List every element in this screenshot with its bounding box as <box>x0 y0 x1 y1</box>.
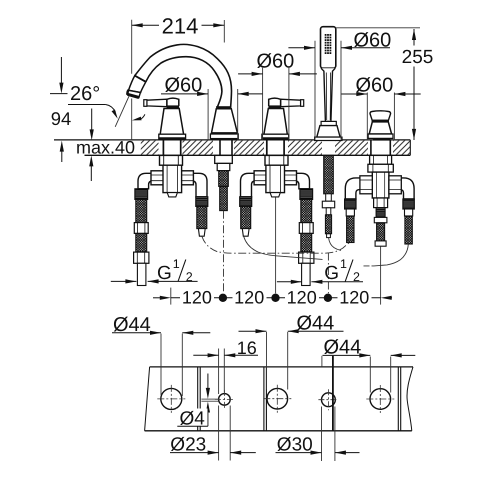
dimension 26 degrees <box>68 83 145 122</box>
hand shower <box>315 27 342 141</box>
svg-text:120: 120 <box>339 288 369 308</box>
svg-text:16: 16 <box>237 338 257 358</box>
valve unit 2 (hot handle + valve + hoses, mirrored) <box>240 98 314 285</box>
svg-text:Ø60: Ø60 <box>354 29 392 51</box>
hole 4 (D30) <box>318 389 338 410</box>
hand shower shank below deck <box>322 155 334 237</box>
hole 5 (D44) <box>366 385 394 413</box>
svg-text:120: 120 <box>182 288 212 308</box>
dimension D4 <box>177 374 219 430</box>
svg-text:G: G <box>324 263 339 284</box>
spout shank below deck <box>215 155 233 210</box>
svg-text:Ø44: Ø44 <box>113 314 151 336</box>
valve unit 1 (cold handle + valve + hoses) <box>134 98 208 285</box>
dimension 255 <box>336 28 434 140</box>
svg-text:94: 94 <box>51 108 71 129</box>
joint line at hole 4 <box>322 356 333 431</box>
label G 1/2 right <box>277 257 363 284</box>
dimension 16 <box>193 338 258 394</box>
dimension D60 diverter <box>341 75 420 140</box>
svg-text:Ø23: Ø23 <box>170 434 206 455</box>
dimension 214 <box>132 14 225 140</box>
bottom rim section <box>145 367 413 431</box>
svg-text:255: 255 <box>402 47 434 68</box>
dimension row 120 <box>153 288 392 308</box>
hole 3 (D44) <box>263 385 291 413</box>
dimension D60 hot handle <box>238 50 317 140</box>
dimension D60 hand shower <box>288 29 391 140</box>
svg-text:214: 214 <box>162 14 199 39</box>
dimension D30 <box>276 407 360 462</box>
svg-text:1: 1 <box>340 257 347 271</box>
label G 1/2 left <box>111 257 198 284</box>
spout base <box>216 106 231 109</box>
svg-text:Ø60: Ø60 <box>165 75 203 97</box>
hole 1 (D44) <box>157 385 185 413</box>
svg-text:120: 120 <box>287 288 317 308</box>
svg-text:G: G <box>157 263 172 284</box>
spout <box>127 44 238 155</box>
dimension D60 spout <box>161 75 262 140</box>
dimension D44 hole3 <box>239 313 344 390</box>
svg-text:Ø30: Ø30 <box>277 434 313 455</box>
diverter knob <box>368 111 393 141</box>
dimension D44 hole1 <box>112 314 210 396</box>
dimension D23 <box>170 406 256 461</box>
hole 2 (D23) <box>215 390 234 409</box>
svg-text:max.40: max.40 <box>76 137 135 157</box>
hose routing curves <box>202 236 408 266</box>
svg-text:Ø44: Ø44 <box>297 313 335 335</box>
dimension max.40 <box>76 109 135 182</box>
centerlines <box>224 197 381 304</box>
dimension D44 hole5 <box>323 336 416 392</box>
svg-text:1: 1 <box>173 257 180 271</box>
svg-text:120: 120 <box>234 288 264 308</box>
diverter valve below deck <box>345 140 415 246</box>
angle reference line <box>115 96 129 127</box>
deck section <box>54 140 410 155</box>
dimension 94 <box>50 57 71 162</box>
spout nozzle <box>129 76 146 93</box>
svg-text:Ø60: Ø60 <box>356 75 394 97</box>
svg-text:26°: 26° <box>70 83 100 105</box>
joint lines <box>198 367 201 431</box>
svg-text:Ø60: Ø60 <box>257 50 295 72</box>
svg-text:Ø44: Ø44 <box>324 336 362 358</box>
